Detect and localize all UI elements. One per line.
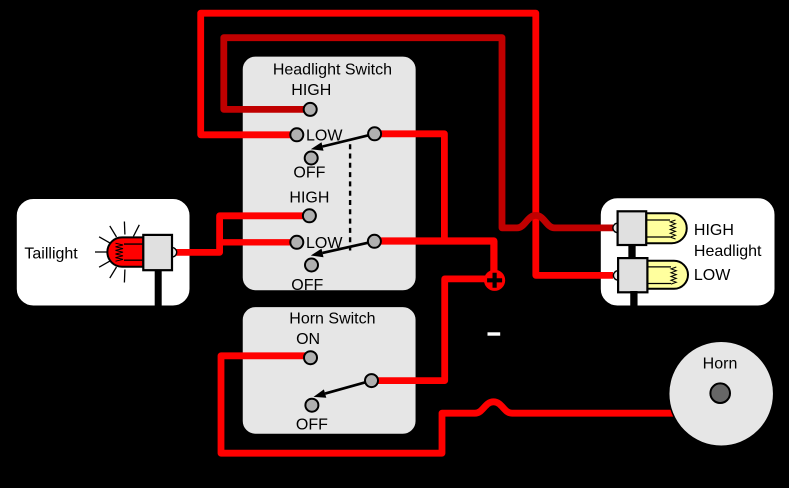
wire battery plus (left) to horn switch common (378, 279, 488, 381)
terminal HIGH2 (303, 209, 316, 222)
svg-text:OFF: OFF (293, 165, 325, 182)
terminal common1 (368, 127, 381, 140)
svg-text:LOW: LOW (306, 128, 343, 145)
terminal LOW1 (290, 128, 303, 141)
svg-text:LOW: LOW (694, 267, 731, 284)
taillight socket (143, 235, 172, 270)
headlamp LOW filament (671, 267, 676, 284)
svg-text:HIGH: HIGH (289, 190, 329, 207)
svg-text:Horn Switch: Horn Switch (289, 310, 375, 327)
headlamp LOW bulb glass (647, 261, 688, 289)
wire horn switch ON to horn (bottom bus with hop) (221, 356, 675, 453)
svg-text:HIGH: HIGH (291, 82, 331, 99)
taillight bulb inner lines (124, 244, 143, 260)
svg-text:Headlight Switch: Headlight Switch (273, 62, 392, 79)
svg-text:Horn: Horn (703, 356, 738, 373)
wire common1 down to junction (375, 134, 445, 241)
headlamp ground wire (630, 291, 637, 309)
svg-text:LOW: LOW (306, 235, 343, 252)
switch arm 1 (323, 134, 375, 147)
terminal OFF3 (horn) (305, 399, 318, 412)
headlamp HIGH socket (618, 211, 647, 245)
battery minus terminal (488, 332, 501, 335)
wire taillight to HIGH2 (172, 216, 309, 253)
dashed gang line (349, 144, 351, 250)
svg-text:OFF: OFF (296, 417, 328, 434)
taillight bulb glass (107, 237, 143, 266)
headlamp LOW nub (613, 271, 622, 280)
taillight socket nub (167, 248, 176, 257)
horn body (669, 341, 774, 446)
battery plus terminal (484, 270, 505, 291)
horn center (710, 383, 730, 403)
taillight bulb rays (95, 222, 139, 283)
headlamp HIGH inner lines (646, 220, 670, 237)
svg-text:ON: ON (296, 331, 320, 348)
switch arm 2 (323, 241, 375, 253)
svg-text:OFF: OFF (291, 277, 323, 294)
terminal common2 (368, 235, 381, 248)
taillight box (15, 198, 191, 308)
terminal HIGH1 (304, 103, 317, 116)
wire LOW1 to LOW headlamp (bright red) (201, 13, 613, 275)
wire between sockets (628, 244, 635, 259)
headlamp HIGH nub (613, 223, 622, 232)
taillight ground wire (155, 270, 162, 308)
terminal common3 (horn) (365, 374, 378, 387)
headlamp LOW socket (618, 258, 647, 292)
terminal ON (horn) (304, 351, 317, 364)
wire common2 to battery plus (top) (374, 241, 494, 274)
switch arm 3 (horn) (325, 381, 371, 394)
svg-text:Headlight: Headlight (694, 243, 762, 260)
terminal OFF2 (305, 259, 318, 272)
headlamp HIGH filament (670, 220, 675, 239)
terminal LOW2 (290, 236, 303, 249)
wire branch to LOW2 (220, 239, 297, 245)
wire HIGH1 to HIGH headlamp (dark red, hops over bright vertical) (224, 38, 613, 228)
headlamp HIGH bulb glass (646, 213, 687, 243)
svg-text:HIGH: HIGH (694, 222, 734, 239)
headlamp LOW inner lines (647, 267, 671, 284)
taillight filament (116, 243, 124, 261)
svg-text:Taillight: Taillight (24, 245, 78, 262)
headlight switch box (242, 55, 417, 291)
terminal OFF1 (305, 152, 318, 165)
horn switch box (242, 306, 417, 435)
headlight box (599, 197, 776, 307)
